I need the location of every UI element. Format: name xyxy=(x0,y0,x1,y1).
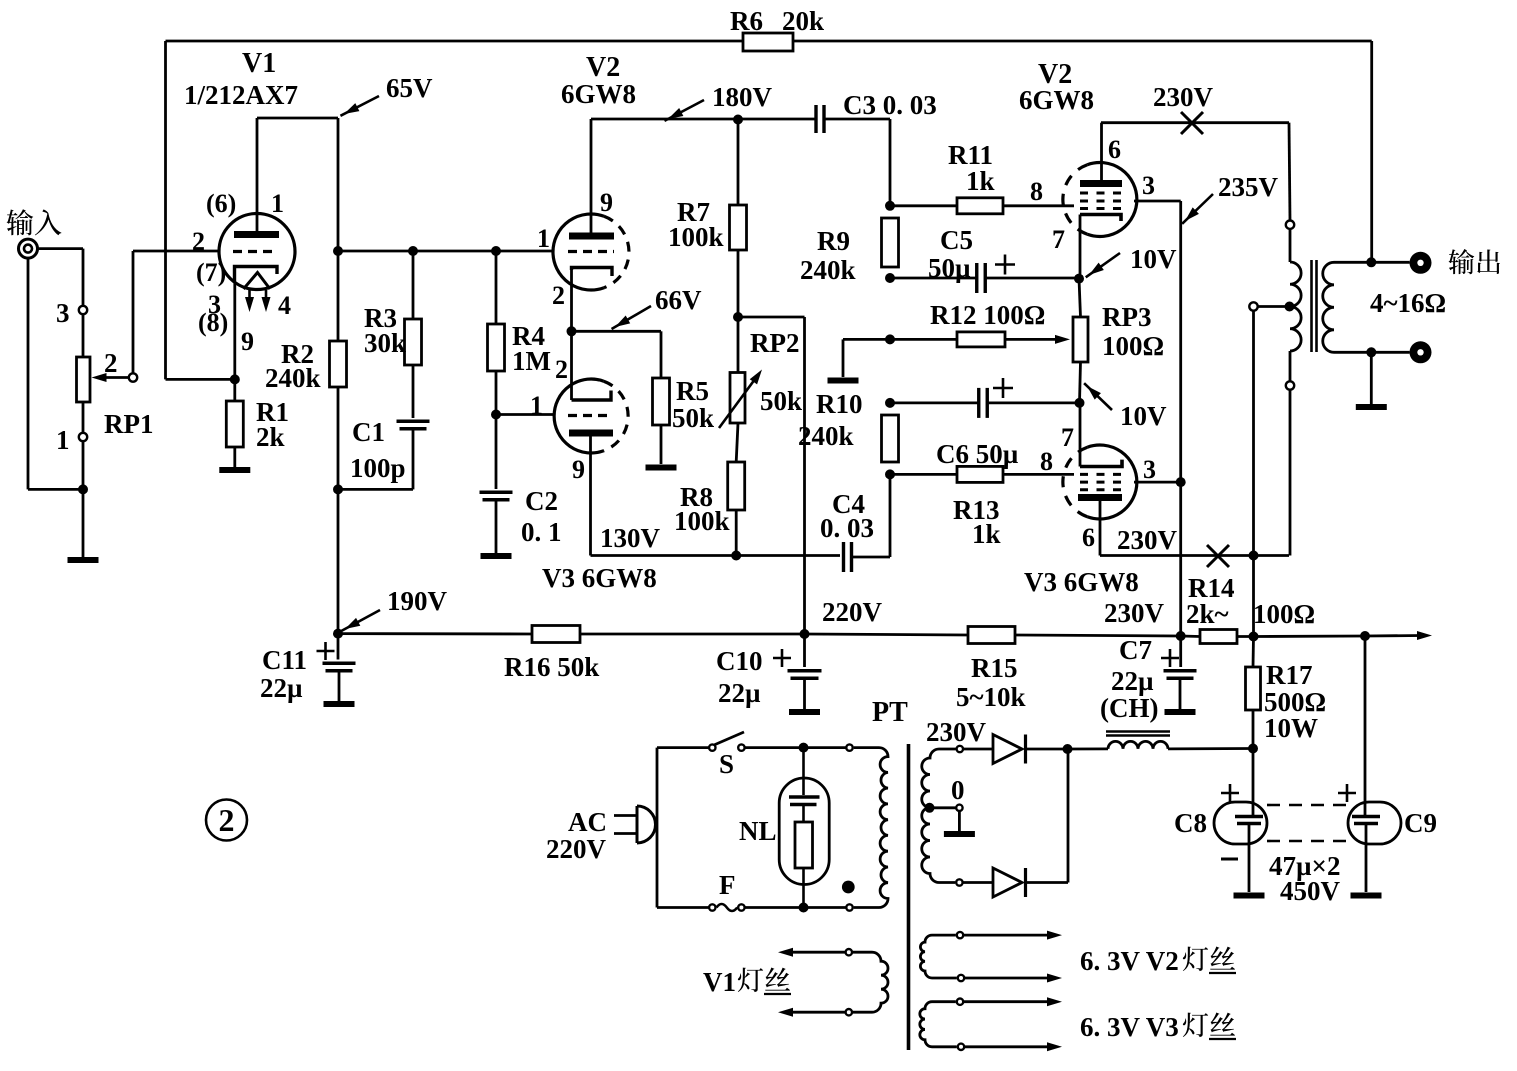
V1 fil bottom terminal xyxy=(846,1009,852,1015)
svg-text:100k: 100k xyxy=(674,506,730,536)
wire R12 row xyxy=(890,338,957,341)
label 2 xyxy=(104,348,118,378)
output jack top xyxy=(1410,252,1432,274)
svg-text:6: 6 xyxy=(1082,523,1095,552)
svg-text:1: 1 xyxy=(56,425,70,455)
svg-text:20k: 20k xyxy=(782,6,824,36)
node V3p cathode xyxy=(1075,398,1085,408)
node V2p cathode xyxy=(1074,274,1084,284)
label pin1 V3t xyxy=(530,391,543,420)
svg-text:220V: 220V xyxy=(546,834,607,864)
V2t cathode xyxy=(572,268,613,277)
wire R1 to ground xyxy=(233,447,236,467)
label C10 xyxy=(716,646,763,676)
capacitor C1 xyxy=(397,421,430,429)
label 22µ C10 xyxy=(718,678,761,708)
label RP1 xyxy=(104,409,154,439)
wire C10 drop xyxy=(803,634,806,667)
V2p cathode xyxy=(1080,215,1121,222)
wire R4 to node66 xyxy=(495,371,498,415)
label 450V xyxy=(1280,876,1341,906)
label pin3 V2p xyxy=(1142,171,1155,200)
svg-text:2: 2 xyxy=(555,355,568,384)
svg-text:10V: 10V xyxy=(1120,401,1167,431)
OPT primary top terminal xyxy=(1286,123,1294,262)
wire cathode to R1 xyxy=(233,379,236,401)
node R14 right xyxy=(1249,632,1259,642)
svg-text:100Ω: 100Ω xyxy=(1102,331,1164,361)
svg-text:9: 9 xyxy=(600,188,613,217)
wire jack return xyxy=(28,258,83,489)
V1 heater pin arrows xyxy=(245,290,271,312)
wire R17 to node xyxy=(1252,710,1255,749)
OPT core xyxy=(1312,260,1317,352)
svg-text:0. 03: 0. 03 xyxy=(820,513,874,543)
wire centre tap 0 xyxy=(930,806,957,809)
label R11 xyxy=(948,140,993,170)
label R12 100Ω xyxy=(930,300,1045,330)
svg-text:0: 0 xyxy=(951,775,965,805)
wire junction to ground xyxy=(82,489,85,557)
ground C9 xyxy=(1351,893,1382,899)
wire C2 to ground xyxy=(495,500,498,553)
resistor R5 xyxy=(653,378,670,425)
node NL top xyxy=(799,743,809,753)
V1 plate xyxy=(234,118,279,235)
x-mark bottom xyxy=(1207,545,1229,567)
label C7 xyxy=(1119,635,1152,665)
label pin1 xyxy=(271,189,284,218)
wire RP1 wiper to V1 grid xyxy=(133,251,220,373)
C9 plus xyxy=(1338,784,1356,802)
svg-text:C1: C1 xyxy=(352,417,385,447)
resistor R1 xyxy=(226,401,243,447)
resistor R17 xyxy=(1246,667,1261,710)
resistor R11 xyxy=(957,198,1003,214)
V2p plate xyxy=(1080,123,1122,184)
annotation 235V xyxy=(1182,172,1278,224)
label pin8 V3p xyxy=(1040,447,1053,476)
wire C11 to ground xyxy=(338,671,341,701)
node R4 top xyxy=(491,246,501,256)
annotation 10V top xyxy=(1086,244,1177,277)
wire C3 to chain xyxy=(824,119,890,206)
wire feedback left drop to V1 cathode xyxy=(166,41,235,379)
wire C6 row left xyxy=(890,401,979,404)
svg-text:C5: C5 xyxy=(940,225,973,255)
svg-text:1/212AX7: 1/212AX7 xyxy=(184,80,298,110)
wire HV bottom to diode xyxy=(963,881,993,884)
label 2k xyxy=(256,422,285,452)
svg-text:F: F xyxy=(719,870,736,900)
svg-text:R10: R10 xyxy=(816,389,863,419)
svg-text:V1: V1 xyxy=(242,48,276,79)
PT primary top terminal xyxy=(846,744,852,750)
label 500Ω xyxy=(1264,687,1326,717)
PT primary bottom terminal xyxy=(846,904,852,910)
svg-text:230V: 230V xyxy=(1153,82,1214,112)
tube V1 envelope xyxy=(219,214,295,290)
svg-text:9: 9 xyxy=(241,327,254,356)
svg-text:6GW8: 6GW8 xyxy=(1019,85,1094,115)
V3 fil bottom terminal xyxy=(958,1044,964,1050)
wire V1 cathode pin xyxy=(233,283,236,379)
label 47µ×2 xyxy=(1269,851,1340,881)
label pin7 V2p xyxy=(1052,225,1065,254)
V2p grids (dashed) xyxy=(1080,193,1125,209)
node V3 grid xyxy=(491,410,501,420)
wire R7 drop xyxy=(737,120,740,206)
label 100k R8 xyxy=(674,506,730,536)
svg-text:10W: 10W xyxy=(1264,713,1318,743)
wire centre tap drop xyxy=(1252,311,1255,636)
node HV centre tap xyxy=(925,803,935,813)
V1 fil bottom arrow xyxy=(778,1008,846,1017)
label V3 6GW8 pentode xyxy=(1024,567,1139,597)
label R1 xyxy=(256,397,289,427)
wire cathode node to R5 xyxy=(572,331,662,378)
label NL xyxy=(739,816,777,846)
label pin2 V2t xyxy=(552,281,565,310)
svg-text:2: 2 xyxy=(192,227,205,256)
label C9 xyxy=(1404,808,1437,838)
tube V2 pentode envelope xyxy=(1063,162,1137,236)
svg-text:RP3: RP3 xyxy=(1102,302,1152,332)
label pin3 V3p xyxy=(1143,455,1156,484)
wire R11 to V2p grid xyxy=(1003,204,1074,207)
ground R1 xyxy=(219,467,250,473)
svg-text:1: 1 xyxy=(537,224,550,253)
label 230V PT xyxy=(926,717,987,747)
node RP1 pin3 xyxy=(79,306,87,314)
label (7) xyxy=(196,258,226,287)
svg-text:7: 7 xyxy=(1052,225,1065,254)
label 1 xyxy=(56,425,70,455)
node screen junction xyxy=(1176,477,1186,487)
label V3 6GW8 xyxy=(542,563,657,593)
label C5 xyxy=(940,225,973,255)
label 1/212AX7 xyxy=(184,80,298,110)
svg-text:RP1: RP1 xyxy=(104,409,154,439)
label 5~10k xyxy=(956,682,1026,712)
dashed link C8-C9 xyxy=(1267,805,1348,841)
label 230V top xyxy=(1153,82,1214,112)
label R3 xyxy=(364,303,397,333)
svg-text:(8): (8) xyxy=(198,308,228,337)
wire pin1 down xyxy=(82,441,85,489)
wire rail to R14 xyxy=(1181,635,1200,638)
svg-text:5~10k: 5~10k xyxy=(956,682,1026,712)
wire rail left xyxy=(338,632,532,635)
label 240k R10 xyxy=(798,421,854,451)
svg-text:1k: 1k xyxy=(966,166,995,196)
V3 fil top terminal xyxy=(957,999,963,1005)
V3t grid (dashed) xyxy=(568,414,613,417)
node NL bottom xyxy=(799,903,809,913)
resistor R13 xyxy=(957,466,1003,482)
label R4 xyxy=(512,321,545,351)
OPT primary winding xyxy=(1290,262,1301,351)
wire V3t plate to C4 xyxy=(591,554,841,557)
label 240k R9 xyxy=(800,255,856,285)
wire V2t plate rail xyxy=(591,118,816,121)
label R14 xyxy=(1188,573,1235,603)
capacitor C11 xyxy=(317,642,356,671)
label 130V xyxy=(600,523,661,553)
svg-text:NL: NL xyxy=(739,816,777,846)
capacitor C8 can xyxy=(1214,802,1267,844)
node R7 top xyxy=(733,115,743,125)
label 100k R7 xyxy=(668,222,724,252)
wire node to R2 xyxy=(337,251,340,341)
wire D1 to node xyxy=(1026,748,1068,751)
potentiometer RP2 xyxy=(719,370,762,429)
wire C9 to ground xyxy=(1365,824,1368,893)
label pin9 V3t xyxy=(572,455,585,484)
wire secondary to ground xyxy=(1370,352,1373,404)
label C11 xyxy=(262,645,307,675)
V1 fil top arrow xyxy=(778,948,846,957)
svg-text:3: 3 xyxy=(1142,171,1155,200)
svg-text:8: 8 xyxy=(1040,447,1053,476)
label 100Ω R14 xyxy=(1253,599,1315,629)
node R8 bottom xyxy=(731,551,741,561)
label C1 xyxy=(352,417,385,447)
wire V1 plate to node65 xyxy=(257,118,338,251)
resistor R3 xyxy=(405,319,422,365)
label 50k R5 xyxy=(672,403,714,433)
OPT primary bottom terminal xyxy=(1286,351,1294,556)
PT primary winding xyxy=(854,748,888,908)
svg-text:S: S xyxy=(719,749,734,779)
V2 fil bottom terminal xyxy=(958,975,964,981)
svg-text:AC: AC xyxy=(568,807,607,837)
label pin6 V2p xyxy=(1108,135,1121,164)
label pin2 V3t xyxy=(555,355,568,384)
svg-text:230V: 230V xyxy=(1104,598,1165,628)
label pin9 V2t xyxy=(600,188,613,217)
label 0 xyxy=(951,775,965,805)
fuse F xyxy=(709,904,745,911)
svg-text:9: 9 xyxy=(572,455,585,484)
label V2 pentode xyxy=(1038,59,1072,90)
resistor R2 xyxy=(330,341,347,387)
svg-text:65V: 65V xyxy=(386,73,433,103)
wire centre tap xyxy=(1258,305,1290,308)
wire RP3 to V3p cathode xyxy=(1080,362,1081,403)
wire 190V to C11 xyxy=(337,634,340,660)
capacitor C9 can xyxy=(1348,802,1401,844)
ground output xyxy=(1356,404,1387,410)
V2 fil bottom arrow xyxy=(964,974,1062,983)
svg-text:0. 1: 0. 1 xyxy=(521,517,562,547)
label R6 20k xyxy=(730,6,824,36)
tube V3 pentode envelope xyxy=(1063,445,1137,519)
ground C10 xyxy=(789,709,820,715)
svg-text:6. 3V V2: 6. 3V V2 xyxy=(1080,946,1179,976)
wire C4 to chain xyxy=(852,474,891,557)
resistor R6 xyxy=(743,33,793,51)
label R17 xyxy=(1266,660,1313,690)
label 1k R13 xyxy=(972,519,1001,549)
svg-text:4~16Ω: 4~16Ω xyxy=(1370,288,1446,318)
svg-text:(CH): (CH) xyxy=(1100,693,1158,723)
wire V2p plate to OPT xyxy=(1101,121,1289,124)
label 6GW8 (triode) xyxy=(561,79,636,109)
wire R11 row xyxy=(890,204,957,207)
label pin9 xyxy=(241,327,254,356)
svg-text:30k: 30k xyxy=(364,328,406,358)
wire C7 drop xyxy=(1179,636,1182,667)
C8 plus xyxy=(1221,784,1239,802)
svg-text:6. 3V V3: 6. 3V V3 xyxy=(1080,1012,1179,1042)
V3 filament winding xyxy=(920,1002,957,1047)
V2 filament winding xyxy=(920,935,956,978)
svg-text:10V: 10V xyxy=(1130,244,1177,274)
node OPT centre-tap drop xyxy=(1249,551,1259,561)
label input 输入 xyxy=(7,209,62,235)
wire C8 to ground xyxy=(1248,824,1251,893)
label pin3 xyxy=(208,290,221,319)
node 65V junction xyxy=(333,246,343,256)
resistor R7 xyxy=(730,205,747,250)
wire C5 row left xyxy=(890,277,977,280)
svg-text:235V: 235V xyxy=(1218,172,1279,202)
diode D2 xyxy=(993,868,1026,897)
label V1灯丝 xyxy=(703,967,791,997)
node RP2 top xyxy=(733,312,743,322)
wire RP1 to pin1 xyxy=(82,402,85,433)
potentiometer RP1 xyxy=(77,357,91,402)
label C8 xyxy=(1174,808,1207,838)
C8 minus xyxy=(1221,858,1238,861)
wire AC top to switch xyxy=(657,746,709,749)
wire V2p cathode to RP3 xyxy=(1079,279,1081,317)
label PT xyxy=(872,697,908,728)
node input ground junction xyxy=(78,484,88,494)
label 22µ C7 xyxy=(1111,666,1154,696)
wire top feedback rail xyxy=(166,40,1372,43)
label S xyxy=(719,749,734,779)
resistor R9 xyxy=(882,218,899,267)
ground input xyxy=(68,557,99,563)
label pin8 V2p xyxy=(1030,177,1043,206)
label pin2 xyxy=(192,227,205,256)
resistor R10 xyxy=(882,415,899,462)
label RP3 xyxy=(1102,302,1152,332)
node 190V xyxy=(333,629,343,639)
ground C8 xyxy=(1234,893,1265,899)
label pin4 xyxy=(278,291,291,320)
ground C11 xyxy=(324,701,355,707)
wire C5 row right xyxy=(985,277,1079,280)
V2 fil top arrow xyxy=(963,931,1062,940)
label R16 50k xyxy=(504,652,599,682)
label V2 (triode) xyxy=(586,52,620,83)
svg-text:2k~: 2k~ xyxy=(1186,599,1229,629)
wire fuse to node xyxy=(745,906,804,909)
node R17 bottom xyxy=(1248,744,1258,754)
label (8) xyxy=(198,308,228,337)
wire V2p screen xyxy=(1134,201,1181,636)
label 0.03 C4 xyxy=(820,513,874,543)
label 6GW8 pentode xyxy=(1019,85,1094,115)
label (6) xyxy=(206,189,236,218)
svg-text:4: 4 xyxy=(278,291,291,320)
label F xyxy=(719,870,736,900)
wire HV top to diode xyxy=(963,748,993,751)
V2t grid (dashed) xyxy=(568,250,614,253)
V2t plate xyxy=(569,119,614,236)
svg-text:C3 0. 03: C3 0. 03 xyxy=(843,90,937,120)
label C6 50µ xyxy=(936,439,1019,469)
wire C8 top xyxy=(1252,749,1255,817)
V3t cathode xyxy=(572,391,612,401)
switch S xyxy=(709,732,745,751)
wire choke to node xyxy=(1168,747,1253,750)
wire node to V3 grid xyxy=(496,413,554,416)
label RP2 xyxy=(750,328,800,358)
wire rail to R15 xyxy=(805,634,969,635)
V1 heater xyxy=(244,273,271,290)
svg-text:C10: C10 xyxy=(716,646,763,676)
node secondary top xyxy=(1366,257,1376,267)
choke winding xyxy=(1108,741,1168,749)
svg-text:50k: 50k xyxy=(672,403,714,433)
svg-text:130V: 130V xyxy=(600,523,661,553)
capacitor C8 xyxy=(1235,817,1263,824)
diode D1 xyxy=(993,735,1026,764)
wire AC loop left xyxy=(656,748,659,908)
wire rail arrow end xyxy=(1365,631,1432,640)
svg-text:180V: 180V xyxy=(712,82,773,112)
svg-text:V1: V1 xyxy=(703,967,736,997)
wire jack to RP1 top xyxy=(38,249,84,306)
wire C9 top xyxy=(1364,636,1367,817)
annotation 190V xyxy=(341,586,447,631)
potentiometer RP3 xyxy=(1073,317,1088,362)
wire rail to C9 tap xyxy=(1254,635,1366,638)
svg-text:R9: R9 xyxy=(817,226,850,256)
label V1 xyxy=(242,48,276,79)
wire V2t cathode drop xyxy=(570,270,573,331)
svg-text:100k: 100k xyxy=(668,222,724,252)
label pin6 V3p xyxy=(1082,523,1095,552)
capacitor C4 xyxy=(844,542,852,572)
label 50k RP2 xyxy=(760,386,802,416)
svg-text:1: 1 xyxy=(271,189,284,218)
label 0.1 xyxy=(521,517,562,547)
wire switch to node xyxy=(745,746,804,749)
label 6.3V V2灯丝 xyxy=(1080,946,1236,976)
label C3 0.03 xyxy=(843,90,937,120)
wire R8 to node xyxy=(735,510,738,556)
wire C1 down-left xyxy=(338,429,413,490)
node RP1 wiper xyxy=(129,373,137,381)
wire secondary top xyxy=(1334,261,1410,264)
label R8 xyxy=(680,482,713,512)
svg-text:(7): (7) xyxy=(196,258,226,287)
node R12 row xyxy=(885,334,895,344)
svg-text:50k: 50k xyxy=(760,386,802,416)
svg-text:PT: PT xyxy=(872,697,908,728)
wire R14 to node xyxy=(1237,635,1254,638)
svg-text:C7: C7 xyxy=(1119,635,1152,665)
svg-text:1M: 1M xyxy=(512,346,551,376)
PT HV top terminal xyxy=(957,746,963,752)
annotation 65V xyxy=(340,73,433,116)
wire V3p plate to OPT xyxy=(1100,554,1289,557)
